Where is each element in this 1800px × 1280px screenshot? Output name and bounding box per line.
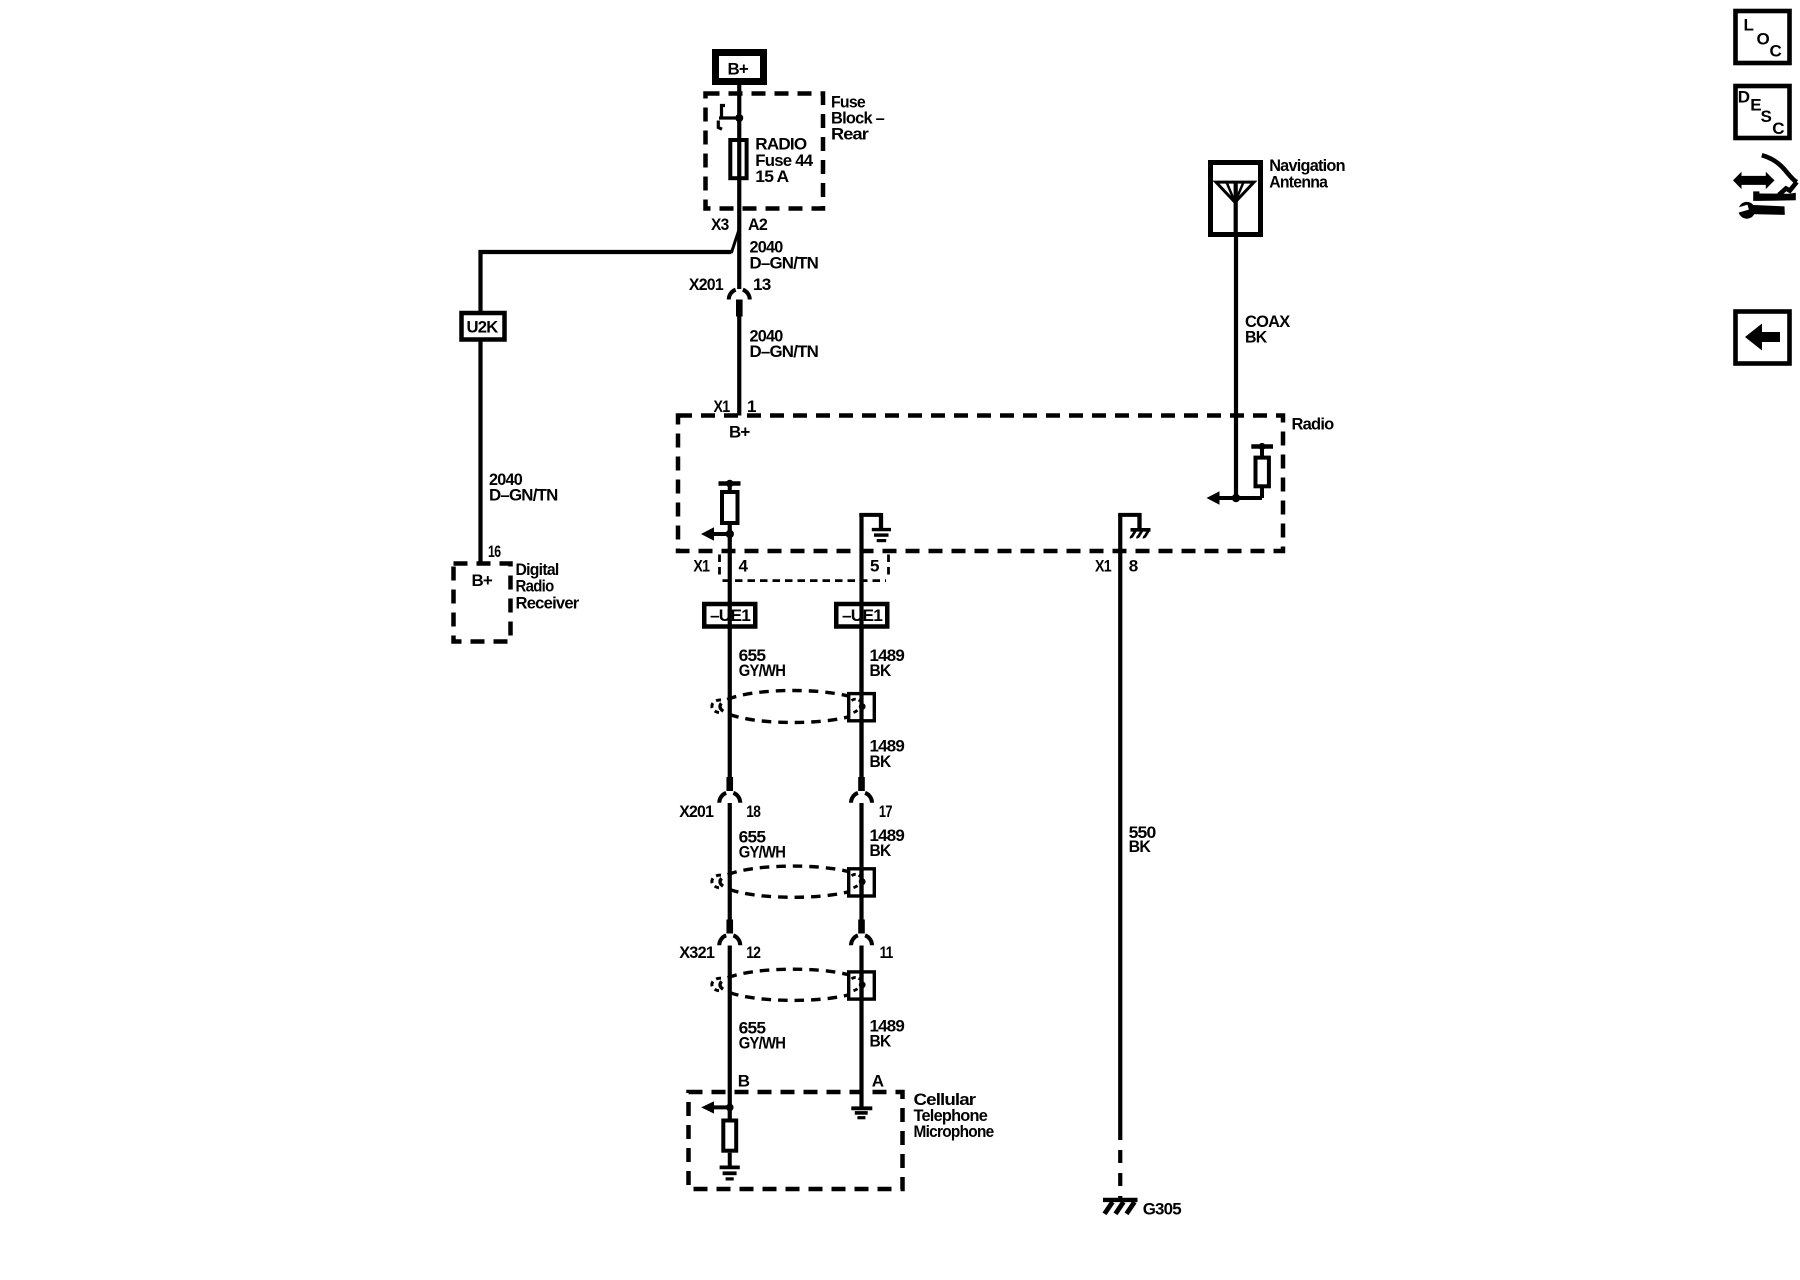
svg-text:A: A (872, 1072, 884, 1091)
svg-text:16: 16 (488, 542, 501, 561)
svg-text:5: 5 (870, 557, 879, 576)
svg-text:GY/WH: GY/WH (739, 843, 786, 862)
svg-text:A2: A2 (748, 215, 767, 234)
svg-text:D–GN/TN: D–GN/TN (489, 485, 558, 504)
svg-text:Antenna: Antenna (1269, 172, 1328, 191)
svg-text:X201: X201 (679, 802, 713, 821)
svg-text:S: S (1761, 107, 1772, 126)
svg-text:1: 1 (747, 397, 756, 416)
svg-text:X1: X1 (1095, 557, 1111, 576)
svg-text:X1: X1 (693, 557, 709, 576)
svg-text:B+: B+ (729, 422, 750, 441)
svg-text:X321: X321 (679, 943, 714, 962)
svg-text:B+: B+ (728, 60, 749, 79)
svg-text:D: D (1738, 87, 1750, 106)
svg-text:BK: BK (870, 1032, 892, 1051)
svg-text:L: L (1744, 16, 1754, 35)
svg-text:12: 12 (746, 943, 760, 962)
svg-text:O: O (1757, 30, 1770, 49)
svg-text:BK: BK (870, 841, 892, 860)
svg-text:Rear: Rear (831, 124, 869, 143)
svg-text:13: 13 (753, 275, 771, 294)
svg-text:Microphone: Microphone (914, 1122, 994, 1141)
svg-text:15 A: 15 A (755, 167, 789, 186)
svg-text:BK: BK (870, 752, 892, 771)
svg-text:17: 17 (879, 802, 892, 821)
svg-text:C: C (1772, 119, 1784, 138)
svg-text:X201: X201 (689, 275, 723, 294)
svg-text:11: 11 (880, 943, 893, 962)
svg-text:4: 4 (739, 557, 749, 576)
svg-text:BK: BK (1129, 837, 1152, 856)
svg-text:–UE1: –UE1 (710, 606, 750, 625)
svg-text:D–GN/TN: D–GN/TN (750, 254, 819, 273)
svg-text:X1: X1 (714, 397, 730, 416)
svg-text:–UE1: –UE1 (842, 606, 882, 625)
svg-text:U2K: U2K (467, 317, 499, 336)
svg-text:D–GN/TN: D–GN/TN (750, 342, 819, 361)
svg-text:BK: BK (870, 661, 892, 680)
svg-text:X3: X3 (711, 215, 729, 234)
svg-text:18: 18 (746, 802, 760, 821)
svg-text:C: C (1770, 42, 1782, 61)
svg-text:GY/WH: GY/WH (739, 1033, 786, 1052)
svg-text:GY/WH: GY/WH (739, 661, 786, 680)
svg-text:B+: B+ (472, 571, 493, 590)
svg-text:8: 8 (1129, 557, 1138, 576)
svg-text:BK: BK (1245, 328, 1268, 347)
svg-text:B: B (738, 1072, 750, 1091)
svg-text:Receiver: Receiver (516, 594, 580, 613)
svg-text:G305: G305 (1143, 1199, 1182, 1218)
svg-text:Radio: Radio (1292, 414, 1334, 433)
